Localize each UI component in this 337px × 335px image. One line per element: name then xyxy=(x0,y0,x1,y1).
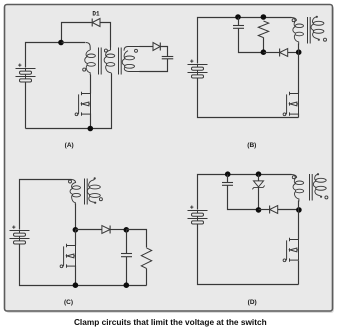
transformer core T4 xyxy=(310,174,313,201)
svg-text:(B): (B) xyxy=(247,142,256,149)
junction drain node C xyxy=(73,227,79,233)
wire primary A bottom to MOSFET drain xyxy=(90,75,92,94)
wire battery D + to top rail xyxy=(198,175,228,210)
junction cap C bottom xyxy=(124,282,130,288)
wire to cap D xyxy=(227,175,229,183)
MOSFET Q1 (circuit A) xyxy=(75,92,90,116)
wire drain node D down to MOSFET xyxy=(298,210,300,240)
junction drain node D xyxy=(296,207,302,213)
wire battery A - down xyxy=(25,83,27,129)
transformer T4 secondary winding (circuit D) xyxy=(313,173,326,198)
wire cap C bottom xyxy=(126,257,128,286)
wire MOSFET C source to bottom rail xyxy=(75,266,77,286)
transformer core T1 left xyxy=(99,48,102,75)
transformer T2 primary winding (circuit B) xyxy=(291,18,303,45)
junction source node C xyxy=(73,282,79,288)
zener diode clamp Z (circuit D) xyxy=(252,181,264,189)
wire top rail D xyxy=(228,174,292,176)
wire battery D - bottom rail D xyxy=(198,225,299,285)
wire clamp node B to diode xyxy=(264,52,280,54)
svg-text:(A): (A) xyxy=(65,142,74,149)
wire node A1 up to D1 cathode xyxy=(62,23,92,43)
junction drain node B xyxy=(296,49,302,55)
wire resistor B bottom xyxy=(263,38,265,53)
phase dot T3 secondary xyxy=(99,198,102,201)
wire drain node C to MOSFET drain xyxy=(75,230,77,246)
wire battery C - bottom rail C xyxy=(20,245,147,286)
resistor snubber R (circuit B) xyxy=(258,21,268,38)
wire diode D to drain node xyxy=(278,209,299,211)
wire clamp winding bottom + bottom rail A xyxy=(26,74,112,129)
capacitor snubber C (circuit B) xyxy=(233,26,244,29)
wire cap node C to resistor C xyxy=(127,230,147,248)
junction zener D top xyxy=(256,171,262,177)
MOSFET Q2 (circuit B) xyxy=(283,92,298,116)
transformer T1 primary winding (circuit A) xyxy=(85,43,96,76)
phase dot T2 secondary xyxy=(324,38,327,41)
wire output diode to cap A xyxy=(161,47,168,57)
junction source node A xyxy=(88,126,94,132)
transformer T3 secondary winding (circuit C) xyxy=(87,177,100,204)
wire node A1 to primary A top xyxy=(62,42,86,44)
battery VB (circuit B) xyxy=(188,60,208,79)
diode D1 xyxy=(92,19,100,27)
phase dot T4 primary xyxy=(292,176,295,179)
transformer core T3 xyxy=(85,179,88,205)
wire cap A bottom to secondary bottom xyxy=(140,59,168,72)
capacitor output C (circuit A) xyxy=(162,57,174,59)
wire T2 primary bottom to drain node xyxy=(298,44,300,53)
phase dot T3 primary xyxy=(69,180,72,183)
wire battery A + to top node xyxy=(26,43,62,68)
svg-text:D1: D1 xyxy=(92,10,100,17)
junction cap node C top xyxy=(124,227,130,233)
wire MOSFET B source to bottom rail xyxy=(298,114,300,118)
phase dot T1 primary xyxy=(83,68,86,71)
transformer T2 secondary winding (circuit B) xyxy=(311,16,324,41)
battery VD (circuit D) xyxy=(188,206,208,225)
wire clamp node D to diode xyxy=(259,209,270,211)
wire cap B bottom to clamp rail xyxy=(239,29,264,53)
phase dot T4 secondary xyxy=(325,196,328,199)
transformer T1 clamp winding (circuit A) xyxy=(104,47,115,75)
wire zener D top stub xyxy=(258,175,260,181)
diode output rectifier (circuit A) xyxy=(153,43,160,51)
svg-text:(D): (D) xyxy=(248,299,257,306)
MOSFET Q4 (circuit D) xyxy=(283,238,298,262)
wire zener D bottom stub xyxy=(258,188,260,210)
wire diode B to drain node xyxy=(288,52,299,54)
wire drain node C to diode xyxy=(76,229,102,231)
transformer T1 secondary winding (circuit A) xyxy=(122,47,140,72)
battery VC (circuit C) xyxy=(10,226,30,245)
wire down to cap C xyxy=(126,230,128,254)
wire battery C + to top rail xyxy=(20,180,72,230)
wire to cap B xyxy=(238,18,240,26)
svg-text:Clamp circuits that limit the: Clamp circuits that limit the voltage at… xyxy=(74,317,267,327)
phase dot T1 secondary xyxy=(135,49,138,52)
junction node A1 xyxy=(58,40,64,46)
wire secondary A top to output diode xyxy=(140,46,154,48)
wire resistor C bottom xyxy=(146,269,148,286)
wire D1 anode to clamp winding top xyxy=(100,23,111,48)
junction cap B top xyxy=(235,14,241,20)
junction clamp node B xyxy=(261,49,267,55)
diode clamp D (circuit B) xyxy=(280,49,288,57)
transformer core T1 right xyxy=(119,48,122,75)
phase dot T2 primary xyxy=(292,19,295,22)
wire MOSFET D source to bottom rail xyxy=(298,261,300,285)
junction resistor B top xyxy=(261,14,267,20)
wire battery B - bottom rail B xyxy=(198,79,299,118)
diode clamp D (circuit C) xyxy=(102,226,110,234)
MOSFET Q3 (circuit C) xyxy=(60,244,75,268)
transformer T4 primary winding (circuit D) xyxy=(291,175,304,202)
transformer core T2 xyxy=(308,17,311,44)
wire top rail B xyxy=(239,17,292,19)
wire T4 primary bottom to drain node xyxy=(298,201,300,210)
svg-text:(C): (C) xyxy=(64,299,73,306)
wire cap D bottom to clamp rail D xyxy=(228,186,259,210)
resistor clamp R (circuit C) xyxy=(141,248,151,269)
wire drain node B down to MOSFET xyxy=(298,53,300,94)
battery VA (circuit A) xyxy=(16,64,36,83)
junction cap D top xyxy=(225,171,231,177)
junction clamp node D xyxy=(256,207,262,213)
wire T3 primary bottom to drain node C xyxy=(75,204,77,230)
diode series D (circuit D) xyxy=(270,206,278,214)
wire MOSFET A source to bottom rail xyxy=(90,114,92,129)
phase dot T1 clamp winding xyxy=(104,49,107,52)
capacitor clamp C (circuit C) xyxy=(121,254,132,257)
capacitor clamp C (circuit D) xyxy=(222,183,233,186)
transformer T3 primary winding (circuit C) xyxy=(70,180,80,205)
wire battery B + to top rail xyxy=(198,18,239,64)
wire diode C to cap node xyxy=(111,229,127,231)
